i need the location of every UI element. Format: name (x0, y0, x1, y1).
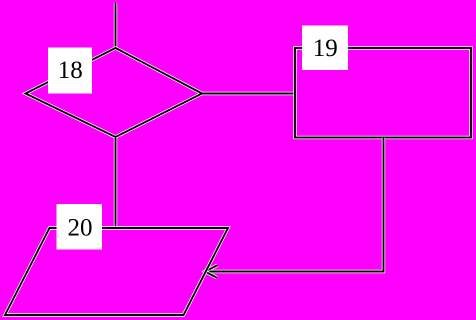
arrowhead into parallelogram (205, 265, 218, 278)
label box 18 (48, 48, 92, 94)
svg-text:18: 18 (58, 57, 83, 84)
wire rectangle bottom down then left to parallelogram (205, 138, 384, 272)
label box 19 (302, 26, 348, 71)
process rectangle 19 (295, 48, 471, 138)
wire diamond right to rectangle (202, 92, 295, 95)
wire diamond bottom to parallelogram (114, 137, 117, 228)
wire top connector into diamond (114, 3, 117, 48)
svg-text:19: 19 (313, 35, 338, 62)
svg-text:20: 20 (68, 215, 93, 242)
label box 20 (57, 204, 103, 250)
io parallelogram 20 (5, 228, 228, 315)
decision diamond 18 (26, 48, 203, 137)
